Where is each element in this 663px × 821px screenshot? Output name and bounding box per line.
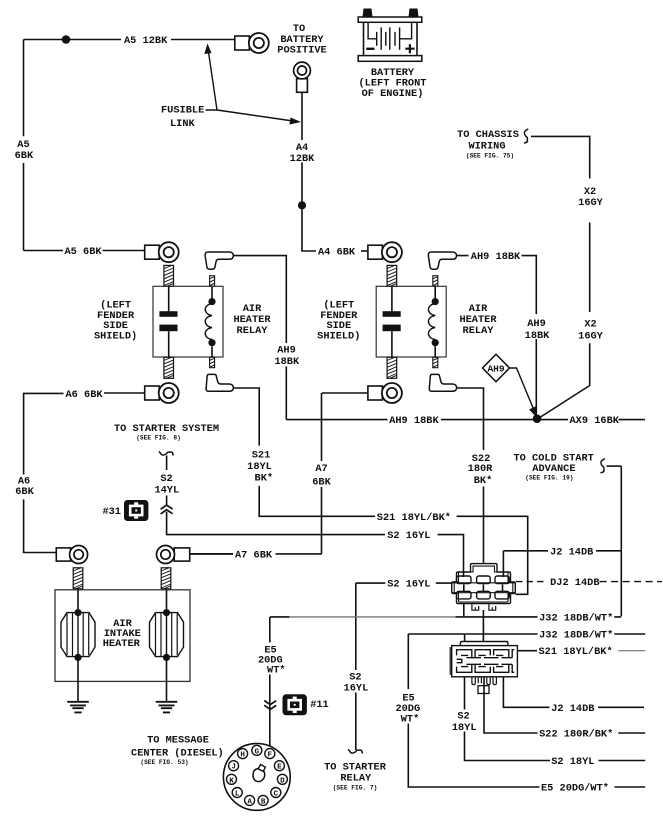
svg-text:(SEE FIG. 75): (SEE FIG. 75) [466,153,514,160]
svg-text:16GY: 16GY [578,330,604,342]
svg-text:#11: #11 [310,699,329,711]
svg-text:C: C [274,791,279,799]
svg-text:J32 18DB/WT*: J32 18DB/WT* [539,630,613,642]
svg-text:180R: 180R [468,463,494,475]
svg-text:A5 12BK: A5 12BK [124,35,168,47]
svg-text:BK*: BK* [474,475,493,487]
svg-text:6BK: 6BK [312,477,331,489]
svg-text:HEATER: HEATER [103,638,141,650]
svg-text:12BK: 12BK [290,153,316,165]
svg-text:SHIELD): SHIELD) [317,330,360,342]
svg-text:WT*: WT* [401,714,420,726]
svg-text:(SEE FIG. 8): (SEE FIG. 8) [136,435,181,442]
svg-text:TO MESSAGE: TO MESSAGE [147,735,209,747]
svg-text:A5 6BK: A5 6BK [65,246,103,258]
svg-text:ADVANCE: ADVANCE [532,463,575,475]
svg-text:S2 16YL: S2 16YL [387,579,430,591]
svg-text:AH9: AH9 [277,344,296,356]
svg-text:RELAY: RELAY [237,325,269,337]
svg-text:16YL: 16YL [344,683,369,695]
svg-text:A: A [247,798,252,806]
svg-text:POSITIVE: POSITIVE [277,45,326,57]
svg-text:A7 6BK: A7 6BK [235,549,273,561]
svg-text:6BK: 6BK [15,150,34,162]
svg-text:J: J [231,764,236,772]
svg-text:18BK: 18BK [525,330,551,342]
svg-text:RELAY: RELAY [463,325,495,337]
svg-text:A4 6BK: A4 6BK [318,246,356,258]
svg-text:WT*: WT* [267,665,286,677]
svg-text:TO CHASSIS: TO CHASSIS [457,129,519,141]
svg-text:AH9 18BK: AH9 18BK [471,251,521,263]
svg-text:FUSIBLE: FUSIBLE [161,105,204,117]
svg-text:RELAY: RELAY [340,773,372,785]
svg-text:18YL: 18YL [247,461,272,473]
svg-text:18BK: 18BK [274,356,300,368]
svg-text:S2 16YL: S2 16YL [387,530,430,542]
svg-text:A6 6BK: A6 6BK [66,389,104,401]
svg-text:SHIELD): SHIELD) [94,330,137,342]
svg-text:S2: S2 [160,473,172,485]
svg-text:16GY: 16GY [578,197,604,209]
svg-text:OF ENGINE): OF ENGINE) [362,88,424,100]
svg-text:E5 20DG/WT*: E5 20DG/WT* [541,783,609,795]
svg-text:LINK: LINK [170,118,196,130]
svg-text:S21: S21 [252,449,271,461]
svg-text:BK*: BK* [255,473,274,485]
svg-text:D: D [280,777,285,785]
svg-text:#31: #31 [102,506,121,518]
svg-text:J2 14DB: J2 14DB [550,546,593,558]
svg-text:S2: S2 [457,710,469,722]
svg-text:S21 18YL/BK*: S21 18YL/BK* [377,512,451,524]
svg-text:(SEE FIG. 7): (SEE FIG. 7) [333,785,378,792]
svg-text:S21 18YL/BK*: S21 18YL/BK* [539,646,613,658]
svg-text:S2 18YL: S2 18YL [551,756,594,768]
svg-text:(SEE FIG. 19): (SEE FIG. 19) [525,474,573,481]
svg-text:A7: A7 [315,463,327,475]
svg-text:S22 180R/BK*: S22 180R/BK* [539,729,613,741]
svg-text:S2: S2 [349,671,361,683]
svg-text:6BK: 6BK [15,486,34,498]
svg-text:X2: X2 [584,318,596,330]
svg-text:AH9: AH9 [527,318,546,330]
svg-text:B: B [261,798,266,806]
svg-text:14YL: 14YL [154,485,179,497]
svg-text:G: G [255,748,260,756]
svg-text:TO STARTER SYSTEM: TO STARTER SYSTEM [114,423,219,435]
svg-text:K: K [229,777,234,785]
svg-text:WIRING: WIRING [468,141,505,153]
svg-text:TO STARTER: TO STARTER [324,761,387,773]
svg-text:J32 18DB/WT*: J32 18DB/WT* [539,612,613,624]
svg-text:AX9 16BK: AX9 16BK [570,415,620,427]
svg-text:E: E [277,764,282,772]
svg-text:J2 14DB: J2 14DB [551,703,594,715]
svg-text:DJ2 14DB: DJ2 14DB [550,577,599,589]
svg-text:F: F [268,752,273,760]
svg-text:(SEE FIG. 53): (SEE FIG. 53) [140,759,188,766]
svg-text:18YL: 18YL [452,722,477,734]
svg-text:L: L [235,791,240,799]
svg-text:AH9: AH9 [487,364,504,375]
svg-text:H: H [240,752,245,760]
svg-text:AH9 18BK: AH9 18BK [389,415,439,427]
